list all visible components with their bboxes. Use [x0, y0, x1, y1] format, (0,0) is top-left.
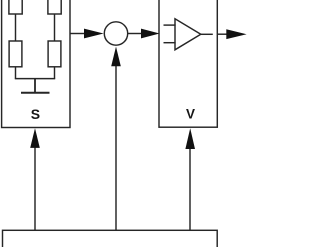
resistor R3 (bottom-left)	[9, 41, 22, 67]
arrowhead (up into S)	[30, 128, 40, 148]
wire (bottom box up to junction)	[115, 65, 117, 230]
ground (stem)	[34, 79, 36, 93]
block S (sensor bridge box)	[2, 0, 70, 128]
wire (R3 down)	[15, 67, 17, 79]
bottom box (excitation source, cut at bottom)	[3, 230, 218, 247]
arrowhead (V output)	[226, 29, 246, 39]
summing junction node	[104, 22, 127, 45]
wire (R2 to R4)	[54, 14, 56, 41]
wire (bottom join)	[15, 78, 55, 80]
wire (R1 to R3)	[15, 14, 17, 41]
wire (V output)	[217, 33, 229, 35]
ground (bar)	[21, 92, 50, 94]
block V (amplifier box)	[159, 0, 217, 127]
wire (bottom box up to S)	[34, 147, 36, 230]
resistor R2 (top-right, cut at top)	[48, 0, 61, 14]
wire (S to junction)	[70, 33, 86, 35]
wire (junction to V)	[128, 33, 143, 35]
wire (bottom box up to V)	[189, 148, 191, 230]
wire (op-amp output stub)	[201, 33, 213, 35]
arrowhead (S to junction)	[84, 29, 104, 39]
wire (R4 down)	[54, 67, 56, 79]
wire (op-amp input + stub)	[164, 24, 176, 26]
arrowhead (junction to V)	[141, 29, 160, 39]
wire (op-amp input - stub)	[164, 42, 176, 44]
svg-text:V: V	[186, 107, 195, 122]
op-amp U1	[175, 19, 201, 50]
svg-text:S: S	[31, 106, 40, 122]
resistor R4 (bottom-right)	[48, 41, 61, 67]
arrowhead (up into junction)	[111, 47, 121, 67]
resistor R1 (top-left, cut at top)	[9, 0, 22, 14]
arrowhead (up into V)	[185, 128, 195, 149]
